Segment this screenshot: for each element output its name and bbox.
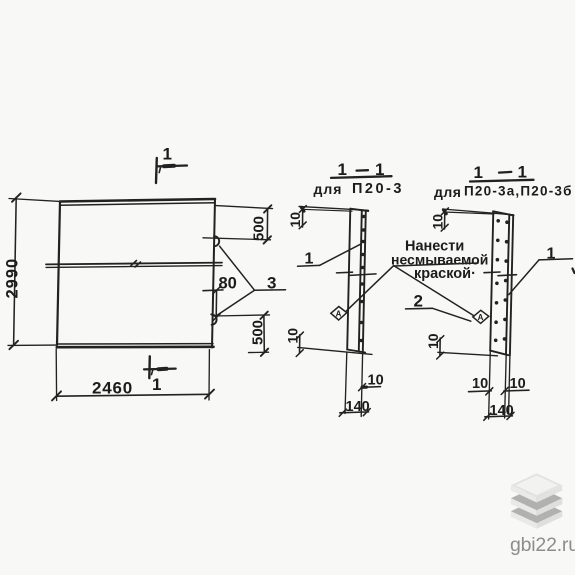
dimension 2460 (bottom)	[52, 349, 214, 401]
svg-text:1: 1	[474, 163, 483, 182]
svg-text:1: 1	[547, 246, 556, 263]
label 2	[406, 308, 471, 321]
svg-text:1: 1	[163, 145, 172, 164]
panel bottom edge (double line)	[57, 344, 214, 348]
svg-text:1: 1	[152, 375, 161, 394]
svg-text:10: 10	[285, 328, 301, 344]
panel middle joint line (double)	[46, 263, 222, 268]
svg-text:для: для	[434, 184, 461, 200]
label 3 leader lines	[217, 246, 286, 315]
label 1 (right section)	[509, 259, 573, 295]
rebar dots left column (right strip)	[494, 219, 500, 342]
svg-text:2990: 2990	[4, 258, 22, 299]
panel left edge	[57, 202, 60, 346]
svg-text:2460: 2460	[92, 379, 133, 398]
svg-text:А: А	[478, 313, 484, 322]
svg-text:140: 140	[346, 399, 370, 415]
svg-text:10: 10	[287, 212, 303, 228]
svg-text:500: 500	[251, 216, 268, 241]
section mark 1 (bottom)	[144, 356, 176, 378]
section title 1-1 (middle)	[331, 160, 392, 179]
paint mark diamond (middle)	[331, 307, 347, 321]
dimension 140 (middle)	[339, 409, 370, 417]
logo slab bottom	[511, 499, 562, 529]
subtitle for P20-3	[314, 181, 404, 197]
svg-text:П20-3: П20-3	[352, 181, 404, 197]
lifting loop bottom	[211, 314, 216, 324]
lifting loop top	[214, 236, 219, 246]
break mark (middle strip)	[337, 272, 377, 275]
svg-text:500: 500	[250, 320, 267, 345]
rebar dots (middle strip)	[359, 215, 365, 343]
svg-text:2: 2	[414, 292, 423, 311]
dimension 2990 (left)	[8, 193, 62, 349]
svg-text:10: 10	[368, 373, 384, 389]
svg-text:10: 10	[425, 333, 441, 349]
rebar dots right column (right strip)	[503, 220, 509, 340]
dimension 10 (middle bottom-right)	[359, 384, 381, 391]
section mark 1 (top)	[156, 158, 187, 183]
svg-text:10: 10	[510, 376, 526, 392]
label 1 (middle)	[298, 244, 361, 266]
dimension 500 (bottom right)	[214, 312, 270, 356]
section title 1-1 (right)	[470, 163, 534, 183]
svg-text:80: 80	[219, 275, 237, 293]
svg-text:140: 140	[490, 403, 514, 419]
scan speck right edge	[573, 269, 575, 274]
panel top edge (double line)	[60, 199, 215, 205]
break mark (right strip)	[484, 272, 517, 276]
dimension 10 (middle top)	[299, 206, 368, 229]
dimension 10 pair (right bottom)	[469, 387, 530, 395]
logo slab top	[511, 473, 562, 502]
svg-text:для: для	[314, 181, 343, 197]
extension lines below right strip	[489, 351, 510, 419]
subtitle for P20-3a,P20-3b	[434, 184, 573, 201]
dimension 500 (top right)	[203, 205, 273, 243]
dimension 10 (middle bottom-left)	[296, 332, 372, 356]
extension lines below middle strip	[345, 352, 363, 416]
strip outline (middle section)	[347, 209, 368, 353]
svg-text:gbi22.ru: gbi22.ru	[510, 534, 575, 556]
svg-text:1: 1	[338, 160, 347, 179]
note leader to right diamond	[394, 266, 475, 316]
strip outline (right section)	[490, 211, 513, 355]
svg-text:А: А	[336, 310, 342, 319]
svg-text:3: 3	[267, 274, 276, 293]
svg-text:краской·: краской·	[414, 266, 476, 282]
note text: apply with indelible paint	[391, 239, 488, 283]
svg-text:10: 10	[430, 214, 446, 230]
svg-text:10: 10	[472, 376, 488, 392]
dimension 140 (right)	[484, 412, 514, 420]
svg-text:1: 1	[305, 251, 314, 268]
panel right edge	[212, 199, 215, 348]
logo slab middle	[511, 486, 562, 516]
svg-text:П20-3а,П20-3б: П20-3а,П20-3б	[464, 184, 573, 199]
dimension 80	[203, 287, 223, 321]
leader diamond to note (middle)	[347, 266, 394, 311]
joint centre mark	[131, 261, 141, 268]
svg-text:1: 1	[518, 163, 527, 182]
dimension 10 (right bottom-left)	[437, 336, 498, 359]
paint mark diamond (right)	[473, 310, 489, 323]
dimension 10 (right top)	[441, 208, 513, 231]
